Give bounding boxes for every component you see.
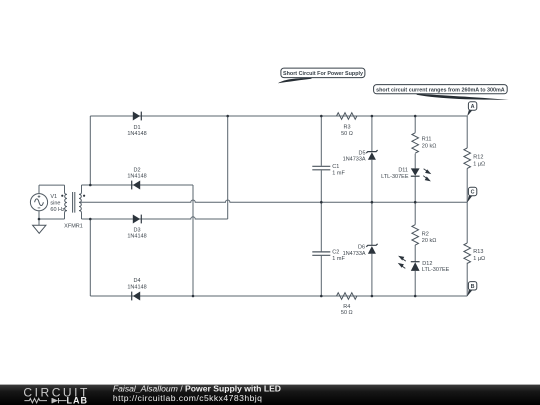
svg-text:C: C: [471, 190, 475, 196]
svg-text:http://circuitlab.com/c5kkx478: http://circuitlab.com/c5kkx4783hbjq: [113, 393, 263, 403]
svg-text:20 kΩ: 20 kΩ: [422, 143, 437, 149]
svg-text:1N4148: 1N4148: [127, 174, 146, 180]
svg-text:50 Ω: 50 Ω: [341, 310, 353, 316]
svg-text:B: B: [471, 284, 475, 290]
svg-text:1N4733A: 1N4733A: [343, 251, 366, 257]
svg-text:D6: D6: [358, 244, 365, 250]
svg-text:C1: C1: [332, 164, 339, 170]
svg-text:sine: sine: [50, 201, 60, 207]
svg-text:1 µΩ: 1 µΩ: [473, 161, 485, 167]
svg-text:LTL-307EE: LTL-307EE: [422, 267, 450, 273]
svg-text:60 Hz: 60 Hz: [50, 207, 65, 213]
svg-text:V1: V1: [50, 194, 57, 200]
svg-text:R11: R11: [422, 137, 432, 143]
svg-text:LAB: LAB: [67, 395, 89, 405]
svg-text:LTL-307EE: LTL-307EE: [381, 174, 409, 180]
svg-text:1 mF: 1 mF: [332, 171, 345, 177]
svg-text:1N4733A: 1N4733A: [343, 157, 366, 163]
svg-text:D4: D4: [133, 278, 140, 284]
svg-text:C2: C2: [332, 249, 339, 255]
svg-text:R13: R13: [473, 249, 483, 255]
svg-text:R3: R3: [343, 124, 350, 130]
svg-text:50 Ω: 50 Ω: [341, 131, 353, 137]
svg-text:R2: R2: [422, 232, 429, 238]
svg-text:A: A: [471, 104, 475, 110]
svg-text:short circuit current ranges f: short circuit current ranges from 260mA …: [376, 87, 505, 93]
svg-text:1N4148: 1N4148: [127, 284, 146, 290]
svg-text:1N4148: 1N4148: [127, 233, 146, 239]
svg-text:20 kΩ: 20 kΩ: [422, 238, 437, 244]
svg-text:R12: R12: [473, 155, 483, 161]
svg-text:Short Circuit For Power Supply: Short Circuit For Power Supply: [283, 71, 363, 77]
svg-text:XFMR1: XFMR1: [64, 223, 83, 229]
svg-text:1N4148: 1N4148: [127, 131, 146, 137]
svg-text:D2: D2: [133, 167, 140, 173]
svg-text:D12: D12: [422, 261, 432, 267]
svg-text:D11: D11: [398, 168, 408, 174]
svg-text:D5: D5: [358, 150, 365, 156]
svg-text:1 µΩ: 1 µΩ: [473, 256, 485, 262]
